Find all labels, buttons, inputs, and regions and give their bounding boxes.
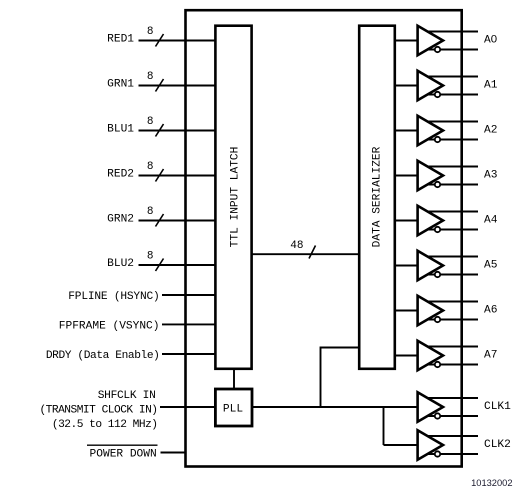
wire output A1+ bbox=[424, 76, 478, 78]
inversion bubble CLK1- bbox=[435, 413, 440, 418]
wire output CLK1- bbox=[424, 415, 478, 417]
svg-text:8: 8 bbox=[147, 116, 154, 128]
device outer box bbox=[186, 10, 462, 466]
bus-width slash GRN1 bbox=[156, 79, 164, 92]
block U3 PLL bbox=[215, 389, 252, 426]
svg-text:A6: A6 bbox=[484, 305, 497, 317]
wire output A5- bbox=[424, 274, 478, 276]
buffer driver A0 bbox=[418, 26, 443, 55]
wire PLL output to CLK1 buffer bbox=[252, 406, 418, 408]
buffer driver A3 bbox=[418, 161, 443, 190]
wire output A0- bbox=[424, 49, 478, 51]
wire serializer to buffer A6 bbox=[395, 310, 418, 312]
svg-text:CLK1: CLK1 bbox=[484, 401, 511, 413]
bus-width slash RED1 bbox=[156, 34, 164, 47]
svg-text:BLU2: BLU2 bbox=[107, 258, 134, 270]
svg-text:A1: A1 bbox=[484, 80, 498, 92]
inversion bubble A7- bbox=[435, 362, 440, 367]
wire BLU1 input bbox=[139, 130, 216, 132]
wire output CLK2- bbox=[424, 453, 478, 455]
inversion bubble A0- bbox=[435, 47, 440, 52]
wire output A3- bbox=[424, 184, 478, 186]
svg-text:RED1: RED1 bbox=[107, 34, 134, 46]
svg-text:DATA SERIALIZER: DATA SERIALIZER bbox=[372, 146, 384, 247]
wire PLL clock branch to serializer (horizontal) bbox=[321, 347, 360, 349]
bus-width slash BLU2 bbox=[156, 259, 164, 272]
svg-text:SHFCLK IN: SHFCLK IN bbox=[98, 390, 156, 402]
buffer driver A6 bbox=[418, 296, 443, 325]
buffer driver A7 bbox=[418, 341, 443, 370]
bus-width slash BLU1 bbox=[156, 124, 164, 137]
wire output A2+ bbox=[424, 121, 478, 123]
svg-text:48: 48 bbox=[290, 240, 303, 252]
wire output A1- bbox=[424, 94, 478, 96]
svg-text:GRN1: GRN1 bbox=[107, 79, 134, 91]
wire CLK2 branch to CLK2 buffer (horizontal) bbox=[384, 444, 419, 446]
block U1 TTL INPUT LATCH bbox=[215, 26, 251, 369]
wire output A4+ bbox=[424, 211, 478, 213]
svg-text:(32.5 to 112 MHz): (32.5 to 112 MHz) bbox=[52, 419, 158, 431]
svg-text:A5: A5 bbox=[484, 260, 497, 272]
wire output A0+ bbox=[424, 31, 478, 33]
wire serializer to buffer A2 bbox=[395, 130, 418, 132]
wire output A4- bbox=[424, 229, 478, 231]
inversion bubble A5- bbox=[435, 272, 440, 277]
svg-text:8: 8 bbox=[147, 251, 154, 263]
svg-text:A2: A2 bbox=[484, 125, 497, 137]
wire output A2- bbox=[424, 139, 478, 141]
svg-text:POWER DOWN: POWER DOWN bbox=[90, 449, 157, 461]
wire FPFRAME input bbox=[162, 323, 215, 325]
svg-text:RED2: RED2 bbox=[107, 169, 134, 181]
svg-text:8: 8 bbox=[147, 161, 154, 173]
svg-text:8: 8 bbox=[147, 26, 154, 38]
wire serializer to buffer A7 bbox=[395, 355, 418, 357]
wire FPLINE input bbox=[162, 294, 215, 296]
wire output CLK1+ bbox=[424, 397, 478, 399]
inversion bubble CLK2- bbox=[435, 451, 440, 456]
wire serializer to buffer A1 bbox=[395, 85, 418, 87]
wire PLL clock branch up to serializer (vertical) bbox=[320, 347, 322, 408]
inversion bubble A6- bbox=[435, 317, 440, 322]
svg-text:PLL: PLL bbox=[223, 404, 243, 416]
wire SHFCLK IN input bbox=[160, 406, 215, 408]
wire CLK2 branch down (vertical) bbox=[383, 407, 385, 445]
buffer driver A4 bbox=[418, 206, 443, 235]
wire output A6+ bbox=[424, 301, 478, 303]
wire RED1 input bbox=[139, 40, 216, 42]
bus-width slash GRN2 bbox=[156, 214, 164, 227]
svg-text:GRN2: GRN2 bbox=[107, 214, 134, 226]
svg-text:A3: A3 bbox=[484, 170, 497, 182]
svg-text:BLU1: BLU1 bbox=[107, 124, 134, 136]
svg-text:DRDY (Data Enable): DRDY (Data Enable) bbox=[46, 350, 160, 362]
bus-width slash 48 bbox=[309, 246, 316, 259]
svg-text:A0: A0 bbox=[484, 34, 497, 47]
overline POWER DOWN bbox=[87, 444, 158, 446]
svg-text:CLK2: CLK2 bbox=[484, 439, 511, 451]
svg-text:10132002: 10132002 bbox=[471, 478, 512, 488]
wire DRDY input bbox=[162, 353, 215, 355]
wire serializer to buffer A5 bbox=[395, 265, 418, 267]
wire latch to PLL bbox=[233, 369, 235, 389]
buffer driver CLK2 bbox=[418, 430, 443, 459]
inversion bubble A3- bbox=[435, 182, 440, 187]
wire 48-bit bus bbox=[252, 253, 360, 255]
wire POWER DOWN input bbox=[161, 452, 186, 454]
svg-text:8: 8 bbox=[147, 206, 154, 218]
wire serializer to buffer A4 bbox=[395, 220, 418, 222]
inversion bubble A1- bbox=[435, 92, 440, 97]
buffer driver A2 bbox=[418, 116, 443, 145]
wire output A3+ bbox=[424, 166, 478, 168]
inversion bubble A2- bbox=[435, 137, 440, 142]
block U2 DATA SERIALIZER bbox=[359, 26, 395, 369]
svg-text:TTL INPUT LATCH: TTL INPUT LATCH bbox=[230, 147, 242, 248]
wire BLU2 input bbox=[139, 264, 216, 266]
svg-text:A4: A4 bbox=[484, 215, 498, 227]
wire output A6- bbox=[424, 319, 478, 321]
wire output A5+ bbox=[424, 256, 478, 258]
wire output A7+ bbox=[424, 346, 478, 348]
buffer driver CLK1 bbox=[418, 392, 443, 421]
wire output A7- bbox=[424, 364, 478, 366]
svg-text:8: 8 bbox=[147, 71, 154, 83]
svg-text:(TRANSMIT CLOCK IN): (TRANSMIT CLOCK IN) bbox=[39, 405, 157, 417]
svg-text:FPLINE (HSYNC): FPLINE (HSYNC) bbox=[68, 291, 159, 303]
svg-text:FPFRAME (VSYNC): FPFRAME (VSYNC) bbox=[59, 320, 160, 332]
wire GRN1 input bbox=[139, 85, 216, 87]
svg-text:A7: A7 bbox=[484, 350, 497, 362]
bus-width slash RED2 bbox=[156, 169, 164, 182]
wire serializer to buffer A0 bbox=[395, 40, 418, 42]
wire serializer to buffer A3 bbox=[395, 175, 418, 177]
wire GRN2 input bbox=[139, 220, 216, 222]
buffer driver A5 bbox=[418, 251, 443, 280]
wire RED2 input bbox=[139, 175, 216, 177]
buffer driver A1 bbox=[418, 71, 443, 100]
inversion bubble A4- bbox=[435, 227, 440, 232]
wire output CLK2+ bbox=[424, 435, 478, 437]
